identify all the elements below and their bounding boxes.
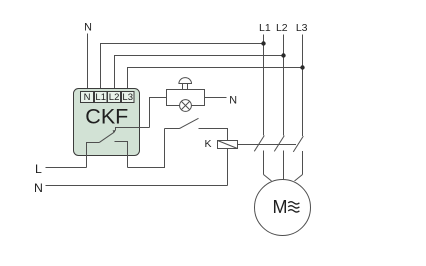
wire N label to terminal N	[87, 34, 89, 92]
junction dot L3	[300, 65, 304, 69]
switch K1 right bar	[199, 129, 228, 141]
svg-text:N: N	[34, 181, 43, 195]
CKF internal switch blade	[100, 132, 115, 142]
svg-text:L1: L1	[259, 22, 271, 34]
svg-text:L3: L3	[122, 92, 133, 103]
contactor contact K L3 blade	[293, 136, 303, 152]
svg-text:L1: L1	[95, 92, 106, 103]
switch K1 blade	[180, 118, 199, 128]
wire actuator linkage from coil to contacts	[238, 144, 297, 146]
wire terminal L3 to rail L3	[128, 68, 303, 92]
wire N rail bottom	[46, 185, 228, 187]
svg-text:L2: L2	[276, 22, 288, 34]
wire coil K to N rail	[227, 149, 229, 186]
switch K1 (middle control contact) left bar	[165, 128, 180, 130]
contactor contact K L2 lower wire	[283, 151, 285, 180]
relay coil K	[218, 141, 238, 149]
wire L1 rail vertical	[263, 35, 265, 136]
pushbutton stem	[182, 84, 184, 90]
terminal L1 of CKF	[95, 92, 108, 103]
lamp (circle with X)	[180, 100, 192, 112]
svg-text:CKF: CKF	[85, 105, 128, 129]
svg-text:K: K	[204, 138, 211, 150]
wire motor feed left bend	[264, 175, 272, 182]
terminal N of CKF	[81, 92, 94, 103]
wire CKF right contact link (down, right, up)	[128, 129, 165, 168]
svg-text:L2: L2	[109, 92, 120, 103]
contactor contact K L2 blade	[274, 136, 284, 152]
svg-text:M: M	[273, 197, 288, 217]
CKF internal switch left fixed contact	[87, 143, 100, 168]
terminal L2 of CKF	[108, 92, 121, 103]
wire CKF common output	[116, 128, 150, 131]
pushbutton cap (dome)	[179, 78, 192, 84]
junction dot L2	[281, 53, 285, 57]
CKF internal switch arrowhead	[113, 130, 116, 133]
contactor contact K L1 blade	[254, 136, 264, 152]
wire lamp branch (drop from lamp to common)	[150, 98, 167, 128]
pushbutton body (illuminated button)	[167, 90, 205, 106]
wire terminal L1 to rail L1	[101, 44, 264, 92]
wire terminal L2 to rail L2	[115, 56, 284, 92]
svg-text:N: N	[84, 92, 91, 103]
motor M body	[255, 180, 311, 236]
wire lamp to N	[205, 97, 227, 99]
contactor contact K L1 lower wire	[263, 151, 265, 175]
wire L to CKF switch	[46, 167, 87, 169]
motor 3~ symbol	[288, 202, 299, 212]
svg-text:N: N	[84, 21, 92, 33]
wire L2 rail vertical	[283, 35, 285, 136]
wire L3 rail vertical	[302, 35, 304, 137]
svg-text:L3: L3	[296, 22, 308, 34]
terminal L3 of CKF	[122, 92, 135, 103]
svg-text:L: L	[35, 162, 42, 176]
CKF internal switch right fixed contact	[115, 142, 128, 168]
wire motor feed right bend	[295, 175, 303, 182]
contactor contact K L3 lower wire	[302, 151, 304, 175]
relay CKF body	[74, 89, 140, 156]
svg-text:N: N	[229, 94, 237, 106]
junction dot L1	[261, 41, 265, 45]
